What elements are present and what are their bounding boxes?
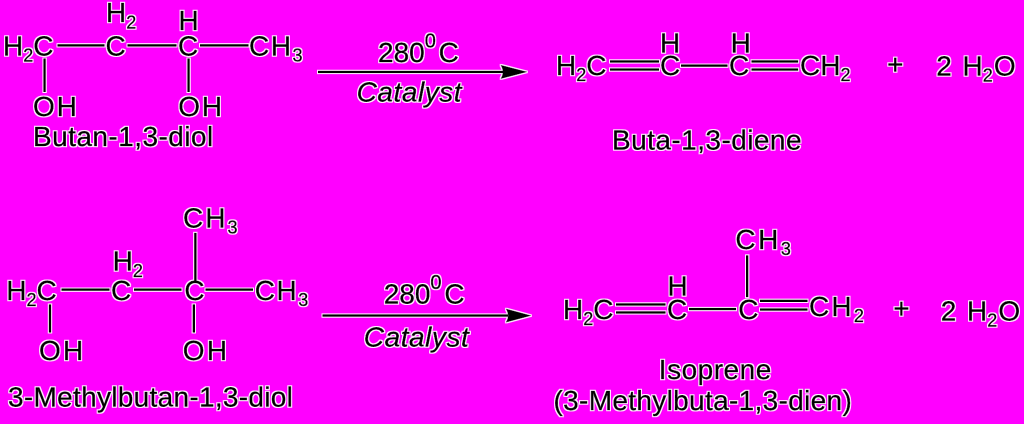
bond C2-C3 (reactant 1) xyxy=(128,44,177,46)
svg-text:C: C xyxy=(106,31,126,62)
svg-text:H: H xyxy=(660,27,680,58)
svg-text:OH: OH xyxy=(33,91,79,122)
reaction arrow 1 head xyxy=(501,65,527,79)
svg-text:Catalyst: Catalyst xyxy=(357,77,463,108)
bond C3-CH3 vertical (reactant 2) xyxy=(194,233,196,283)
svg-text:C: C xyxy=(184,275,204,306)
svg-text:3-Methylbutan-1,3-diol: 3-Methylbutan-1,3-diol xyxy=(8,382,293,413)
bond C3-OH (reactant 2) xyxy=(193,304,195,332)
double bond C1=C2 (product 1) xyxy=(610,60,659,62)
reaction arrow 2 head xyxy=(506,309,531,322)
svg-text:C: C xyxy=(738,294,758,325)
svg-text:H: H xyxy=(731,27,751,58)
bond C2-C3 (product 2) xyxy=(689,308,736,310)
reaction arrow 2 shaft xyxy=(323,314,509,316)
bond C1-OH (reactant 1) xyxy=(43,59,45,93)
svg-text:Butan-1,3-diol: Butan-1,3-diol xyxy=(33,121,214,152)
svg-text:OH: OH xyxy=(39,335,85,366)
svg-text:(3-Methylbuta-1,3-dien): (3-Methylbuta-1,3-dien) xyxy=(554,385,853,416)
svg-text:C: C xyxy=(111,275,131,306)
reaction arrow 1 shaft xyxy=(318,71,504,73)
bond C1-C2 (reactant 2) xyxy=(62,289,110,291)
bond C3-C4 (reactant 2) xyxy=(206,289,254,291)
svg-text:OH: OH xyxy=(178,91,224,122)
bond C2-C3 (product 1) xyxy=(681,64,728,66)
svg-text:H: H xyxy=(179,5,199,36)
bond C1-OH (reactant 2) xyxy=(49,304,51,332)
bond C3-OH (reactant 1) xyxy=(187,59,189,93)
svg-text:H: H xyxy=(668,271,688,302)
double bond C3=C4 (product 1) xyxy=(752,60,799,62)
svg-text:Buta-1,3-diene: Buta-1,3-diene xyxy=(612,124,802,155)
bond C3-CH3 vertical (product 2) xyxy=(746,255,748,297)
bond C1-C2 (reactant 1) xyxy=(58,44,105,46)
bond C3-C4 (reactant 1) xyxy=(200,44,249,46)
svg-text:+: + xyxy=(893,293,909,324)
svg-text:2800C: 2800C xyxy=(378,31,459,69)
svg-text:Catalyst: Catalyst xyxy=(364,321,470,352)
svg-text:Isoprene: Isoprene xyxy=(659,354,772,385)
bond C2-C3 (reactant 2) xyxy=(134,289,182,291)
svg-text:OH: OH xyxy=(183,335,229,366)
svg-text:+: + xyxy=(887,49,903,80)
double bond C3=C4 (product 2) xyxy=(760,300,808,302)
svg-text:2 H2O: 2 H2O xyxy=(941,296,1020,331)
double bond C1=C2 (product 2) xyxy=(616,303,666,305)
svg-text:2800C: 2800C xyxy=(384,272,465,310)
svg-text:2 H2O: 2 H2O xyxy=(936,50,1015,85)
